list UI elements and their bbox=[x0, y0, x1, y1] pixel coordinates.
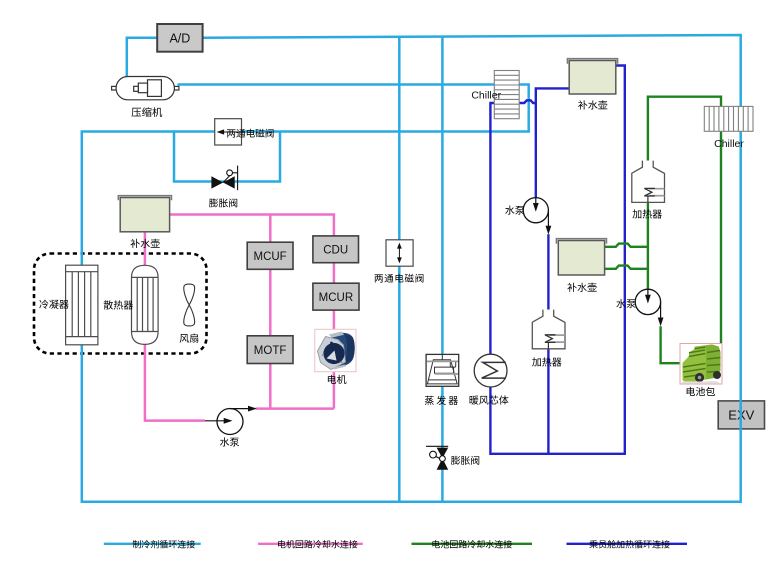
pump 2 (heating loop water pump) bbox=[523, 198, 551, 235]
heater 1 (battery loop PTC 加热器) bbox=[632, 161, 665, 203]
legend battery loop bbox=[412, 543, 533, 545]
evaporator bbox=[426, 354, 459, 386]
svg-text:Chiller: Chiller bbox=[714, 138, 744, 150]
wire: battery coolant loop (green) bbox=[605, 97, 721, 364]
kettle 3 (battery loop reservoir) bbox=[556, 239, 606, 275]
wire: cabin heating loop (navy) bbox=[490, 66, 624, 454]
wire: motor coolant loop (pink) bbox=[145, 215, 334, 421]
label 散热器 bbox=[104, 300, 113, 309]
svg-text:Chiller: Chiller bbox=[471, 90, 501, 102]
two-way solenoid valve 2 box bbox=[386, 240, 413, 266]
legend motor loop bbox=[258, 543, 363, 545]
compressor bbox=[112, 77, 179, 100]
legend refrigerant bbox=[104, 543, 201, 545]
label 水泵 2 bbox=[505, 206, 514, 215]
label 补水壶 2 bbox=[578, 100, 587, 109]
chiller 2 (horizontal ladder) bbox=[704, 106, 753, 131]
label 蒸发器 bbox=[425, 396, 434, 405]
fan bbox=[184, 284, 195, 326]
expansion valve 1 (bowtie with pilot) bbox=[223, 166, 238, 191]
MCUF box bbox=[247, 242, 293, 269]
label 压缩机 bbox=[132, 108, 142, 117]
svg-text:A/D: A/D bbox=[169, 31, 190, 45]
expansion valve 2 (vertical, below evaporator) bbox=[426, 446, 448, 458]
label 膨胀阀 1 bbox=[209, 198, 218, 207]
legend cabin heating loop bbox=[567, 543, 688, 545]
MCUR box bbox=[313, 283, 359, 310]
label 风扇 bbox=[180, 334, 189, 343]
motor photo (电机) bbox=[315, 329, 356, 371]
label 补水壶 3 bbox=[567, 283, 576, 292]
chiller 1 (vertical ladder) bbox=[494, 71, 519, 119]
svg-text:MOTF: MOTF bbox=[254, 345, 287, 357]
two-way solenoid valve 1 box bbox=[215, 119, 242, 145]
kettle 2 (top heating reservoir) bbox=[567, 59, 617, 94]
pump 3 (battery loop water pump) bbox=[635, 289, 663, 326]
label 水泵 1 bbox=[220, 437, 229, 446]
condenser bbox=[66, 265, 98, 345]
A/D receiver-drier box bbox=[157, 24, 202, 52]
label 膨胀阀 2 bbox=[451, 456, 460, 465]
label 电池包 bbox=[687, 387, 695, 396]
label 加热器 1 bbox=[632, 209, 641, 218]
label 电机 bbox=[328, 375, 336, 384]
label 加热器 2 bbox=[532, 357, 541, 366]
label 两通电磁阀 1 bbox=[227, 129, 235, 137]
label 两通电磁阀 2 bbox=[374, 274, 382, 282]
heater 2 (cabin loop PTC 加热器) bbox=[532, 310, 565, 349]
pump 1 (motor loop water pump) bbox=[205, 406, 257, 435]
MOTF box bbox=[247, 336, 293, 364]
label 暖风芯体 bbox=[470, 395, 479, 404]
dashed front-end module box bbox=[34, 254, 207, 354]
label 冷凝器 bbox=[39, 300, 48, 309]
svg-text:MCUF: MCUF bbox=[253, 251, 286, 263]
label 补水壶 1 bbox=[130, 239, 139, 248]
heater core circle (暖风芯体) bbox=[474, 354, 507, 387]
EXV valve box bbox=[718, 401, 764, 429]
label 水泵 3 bbox=[616, 299, 625, 308]
radiator bbox=[132, 265, 159, 344]
wire: refrigerant main loop (cyan) bbox=[82, 35, 741, 502]
svg-text:MCUR: MCUR bbox=[319, 292, 354, 304]
kettle 1 (coolant reservoir) bbox=[118, 196, 171, 232]
battery pack photo (电池包) bbox=[680, 344, 722, 385]
CDU box bbox=[313, 236, 359, 263]
svg-text:CDU: CDU bbox=[323, 245, 348, 257]
